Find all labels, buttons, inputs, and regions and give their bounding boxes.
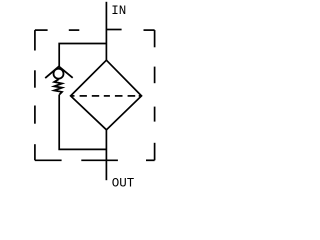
wire branch to bypass valve (59, 44, 106, 67)
spring (54, 79, 62, 94)
enclosure right edge (154, 30, 156, 160)
wire bypass return (59, 95, 106, 150)
filter diamond (71, 60, 142, 130)
wire OUT line (105, 130, 107, 180)
wire IN line (105, 2, 107, 61)
check valve seat (45, 66, 72, 78)
filter element dashed line (71, 95, 142, 97)
enclosure left edge (34, 30, 36, 160)
enclosure top edge (35, 29, 155, 32)
svg-text:OUT: OUT (112, 176, 135, 190)
svg-text:IN: IN (111, 4, 126, 18)
check valve ball (54, 69, 64, 79)
enclosure bottom edge (35, 159, 155, 161)
